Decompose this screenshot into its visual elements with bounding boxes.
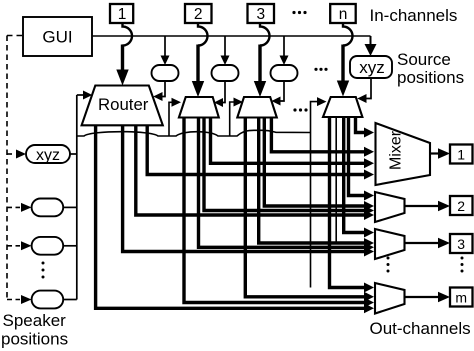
svg-text:Source: Source [397, 50, 451, 69]
mixer 1 [376, 123, 431, 185]
wire panner-n out1 to mixer m [330, 117, 365, 288]
wire panner2 out1 to mixer m [184, 117, 365, 303]
source position ellipse 2 [212, 65, 239, 81]
wire GUI control bus [92, 35, 371, 37]
svg-text:xyz: xyz [359, 58, 385, 77]
GUI box [23, 17, 92, 56]
speaker ellipse 2 [32, 199, 64, 217]
dashed branch to speaker ellipse 4 [7, 299, 20, 301]
riser to panner2 left arrow [169, 102, 172, 136]
wire router out2 to mixer 3 [123, 125, 365, 252]
wire bus to source xyz box [370, 36, 372, 45]
speaker ellipse 3 [32, 237, 64, 255]
svg-text:Router: Router [98, 95, 149, 114]
dots between out boxes [461, 257, 464, 273]
wire panner3 out2 to mixer 3 [259, 117, 365, 243]
wire panner-n out2 to mixer 3 [344, 117, 365, 233]
svg-text:n: n [339, 6, 348, 23]
source position ellipse 1 [152, 65, 179, 81]
wire ellipse3 to panner3 [280, 81, 284, 101]
wire bus to source ellipse 2 [224, 36, 226, 57]
speaker ellipse 4 [32, 291, 64, 309]
arrow mixer2 to out box 2 [405, 205, 442, 207]
riser to panner n left arrow and down-link [311, 102, 318, 288]
wire ellipse1 to router [162, 81, 165, 97]
dots between source ellipses [314, 68, 327, 71]
router U1 [82, 86, 163, 126]
dots between mixers [387, 257, 390, 273]
out-channel box m [450, 288, 473, 307]
dashed branch to speaker ellipse 2 [7, 206, 20, 208]
dashed GUI line horizontal [7, 35, 23, 37]
wire router out4 to mixer 1 [147, 125, 364, 175]
wire xyz to panner n [366, 78, 371, 99]
arrow mixer3 to out box 3 [405, 242, 442, 244]
wire panner3 out4 to mixer 1 [271, 117, 364, 152]
arrow speaker bus into router left [77, 94, 83, 96]
wire router out3 to mixer 2 [136, 125, 365, 215]
mixer 2 [375, 192, 405, 222]
svg-text:In-channels: In-channels [370, 6, 458, 25]
svg-text:Mixer: Mixer [388, 130, 405, 170]
dashed GUI line vertical [6, 36, 8, 300]
svg-text:positions: positions [397, 68, 464, 87]
wire ch2 drop with hop [198, 23, 207, 46]
dashed branch to speaker ellipse 3 [7, 245, 20, 247]
svg-text:Speaker: Speaker [3, 311, 67, 330]
out-channel box 2 [450, 196, 473, 215]
wire ellipse2 to panner2 [223, 81, 226, 103]
abridged panner output thin wire [335, 117, 337, 244]
mixer 3 [375, 229, 405, 259]
source position ellipse 3 [271, 65, 298, 81]
wire panner2 out2 to mixer 3 [199, 117, 365, 247]
in-channel box 3 [248, 4, 275, 23]
svg-text:1: 1 [457, 146, 465, 162]
wire bus to source ellipse 1 [164, 36, 166, 57]
panner 3 [237, 97, 276, 118]
wire panner-n out3 to mixer 2 [349, 117, 365, 196]
wire panner3 out1 to mixer m [245, 117, 364, 297]
source xyz box [350, 56, 392, 78]
wire router out1 to mixer m [96, 125, 365, 308]
dashed branch to speaker xyz [7, 153, 15, 155]
speaker positions vertical bus [76, 95, 78, 300]
wire speaker ellipse2 to bus [63, 206, 77, 208]
svg-text:2: 2 [457, 198, 465, 214]
speaker xyz box [26, 145, 70, 163]
wire ch3 drop with hop [260, 23, 269, 46]
wire speaker ellipse3 to bus [63, 245, 77, 247]
svg-text:m: m [455, 289, 467, 305]
svg-text:positions: positions [1, 330, 68, 349]
in-channel box 1 [110, 4, 133, 23]
arrow mixer1 to out box 1 [430, 152, 441, 154]
wire speaker ellipse4 to bus [63, 299, 77, 301]
svg-text:2: 2 [194, 6, 203, 23]
panner n [323, 97, 362, 117]
svg-text:GUI: GUI [42, 28, 72, 47]
in-channel box n [330, 4, 356, 23]
svg-text:3: 3 [256, 6, 265, 23]
panner 2 [179, 97, 219, 118]
wire bus to source ellipse 3 [283, 36, 285, 57]
wire speaker xyz to bus [70, 153, 77, 155]
out-channel box 3 [450, 234, 473, 253]
speaker positions horizontal bus with humps [77, 130, 311, 136]
riser to panner3 left arrow [230, 102, 234, 136]
svg-text:Out-channels: Out-channels [370, 319, 471, 338]
dots between panners [293, 108, 307, 111]
wire panner3 out3 to mixer 2 [264, 117, 364, 206]
out-channel box 1 [450, 145, 473, 164]
wire ch1 drop with hop [123, 23, 132, 46]
wire panner2 out4 to mixer 1 [211, 117, 365, 163]
svg-text:1: 1 [118, 6, 127, 23]
in-channel box 2 [185, 4, 212, 23]
svg-text:3: 3 [457, 236, 465, 252]
wire chn drop with hop [343, 23, 352, 46]
wire panner-n out4 to mixer 1 [356, 117, 365, 133]
dots between in-channels [292, 11, 306, 14]
dots between speaker ellipses [42, 262, 45, 279]
mixer m [375, 283, 405, 314]
arrow mixer-m to out box m [405, 296, 442, 298]
svg-text:xyz: xyz [36, 147, 60, 164]
wire panner2 out3 to mixer 2 [204, 117, 365, 211]
